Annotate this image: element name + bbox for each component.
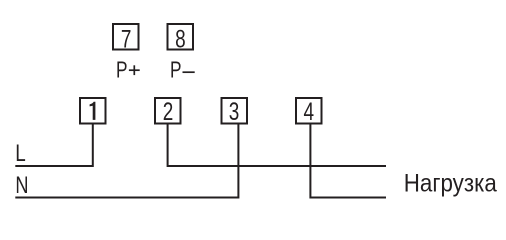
terminal box 1	[80, 98, 106, 124]
wire terminal 2 to load	[168, 125, 386, 167]
terminal box 2	[155, 98, 181, 124]
terminal box 8	[168, 24, 194, 50]
svg-text:Р: Р	[116, 58, 128, 83]
svg-text:8: 8	[175, 25, 186, 53]
wire N to terminal 3	[15, 125, 238, 198]
svg-text:Р: Р	[170, 58, 182, 83]
svg-text:2: 2	[163, 97, 174, 125]
svg-text:L: L	[15, 139, 26, 166]
svg-text:4: 4	[304, 97, 315, 125]
terminal box 7	[113, 24, 139, 50]
pin number 1	[90, 102, 96, 120]
wire terminal 4 to load	[310, 125, 386, 198]
terminal box 4	[296, 98, 322, 124]
svg-text:N: N	[15, 171, 28, 198]
svg-text:3: 3	[229, 97, 240, 125]
svg-text:Нагрузка: Нагрузка	[404, 169, 498, 197]
svg-text:7: 7	[121, 25, 132, 53]
terminal box 3	[222, 98, 248, 124]
wire L to terminal 1	[15, 125, 93, 167]
